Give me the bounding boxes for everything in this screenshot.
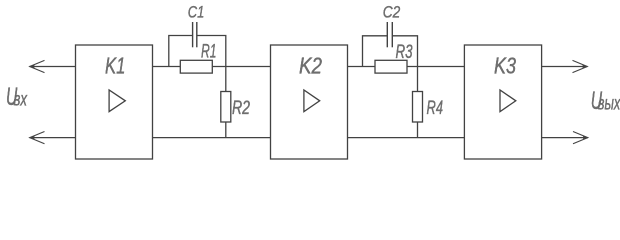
arrow output top (573, 60, 588, 72)
label U out (591, 87, 620, 115)
wire K2 to R3 (348, 66, 376, 68)
wire C2 branch right (392, 36, 417, 67)
wire C1 branch left (169, 36, 193, 67)
label K2 (299, 53, 322, 79)
svg-text:R3: R3 (396, 42, 413, 63)
wire output bottom (542, 137, 588, 139)
resistor R1 (180, 60, 212, 73)
label R4 (427, 97, 444, 119)
svg-text:вх: вх (14, 90, 29, 111)
resistor R3 (375, 60, 407, 73)
arrow output bottom (573, 132, 588, 144)
capacitor C2 (387, 22, 392, 47)
label K1 (105, 53, 126, 79)
wire R1 to K2 (212, 66, 270, 68)
label R2 (232, 97, 250, 119)
arrow input top (29, 60, 44, 72)
arrow input bottom (29, 132, 44, 144)
wire node to R2 (225, 67, 227, 138)
svg-text:вых: вых (598, 94, 620, 115)
svg-text:R1: R1 (201, 41, 217, 62)
svg-text:R4: R4 (427, 97, 444, 119)
wire K2 to K3 bottom (348, 137, 465, 139)
wire K1 to R1 (node A top) (153, 66, 181, 68)
svg-text:K3: K3 (494, 53, 516, 79)
wire node to R4 (417, 67, 419, 138)
amplifier block K1 (76, 45, 153, 159)
label U in (6, 83, 28, 111)
wire input bottom (30, 137, 76, 139)
label C2 (383, 2, 401, 21)
svg-text:R2: R2 (232, 97, 250, 119)
label R1 (201, 41, 217, 62)
label K3 (494, 53, 516, 79)
amplifier block K3 (464, 45, 541, 159)
wire output top (542, 66, 588, 68)
wire C1 branch right (197, 36, 226, 67)
capacitor C1 (193, 22, 197, 47)
wire R3 to K3 (407, 66, 464, 68)
label C1 (188, 2, 205, 21)
svg-text:K1: K1 (105, 53, 126, 79)
svg-text:C1: C1 (188, 2, 205, 21)
svg-text:C2: C2 (383, 2, 401, 21)
amplifier symbol in K3 (500, 90, 516, 112)
resistor R4 (413, 92, 423, 123)
amplifier symbol in K1 (109, 90, 125, 112)
wire K1 to K2 bottom (153, 137, 271, 139)
label R3 (396, 42, 413, 63)
amplifier block K2 (271, 45, 348, 159)
amplifier symbol in K2 (304, 90, 320, 112)
wire C2 branch left (363, 36, 388, 67)
resistor R2 (221, 92, 231, 123)
wire input top (30, 66, 76, 68)
svg-text:K2: K2 (299, 53, 322, 79)
